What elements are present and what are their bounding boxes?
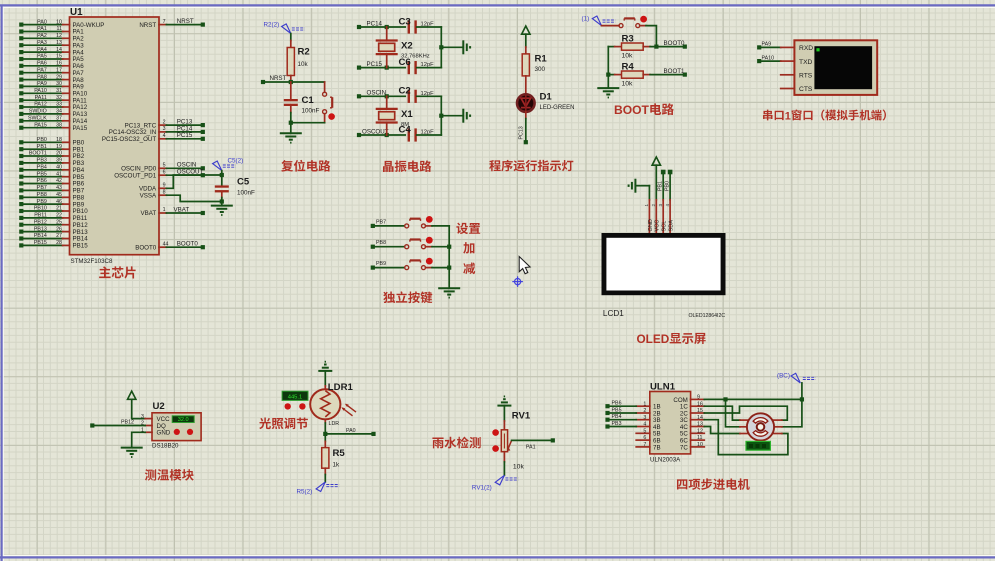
keys common rail to ground	[448, 226, 450, 288]
pin CTS stub	[781, 88, 795, 90]
U2 pin GND (1)	[145, 431, 152, 433]
power terminal OLED VCC	[652, 157, 660, 165]
svg-text:PB5: PB5	[612, 407, 622, 413]
resistor R4 10k	[608, 74, 614, 76]
svg-text:PA9: PA9	[762, 42, 772, 48]
pin PA8 (29) wire	[19, 78, 23, 82]
crystal X2	[386, 27, 388, 40]
ULN1 pin 2C (15)	[691, 412, 705, 414]
svg-text:PA10: PA10	[762, 55, 775, 61]
svg-text:10k: 10k	[298, 61, 309, 68]
svg-text:44: 44	[163, 241, 169, 247]
svg-text:PB14: PB14	[34, 233, 47, 239]
svg-text:C5(2): C5(2)	[228, 158, 244, 165]
svg-text:32: 32	[56, 95, 62, 101]
chip U1 STM32F103C8 body	[70, 17, 160, 255]
svg-text:29: 29	[56, 74, 62, 80]
svg-text:11: 11	[697, 435, 703, 441]
pin PB15 (28) wire	[19, 243, 23, 247]
wire COM to motor left common	[726, 399, 741, 426]
svg-text:PB12: PB12	[34, 219, 47, 225]
label 加	[463, 242, 474, 254]
svg-text:R5: R5	[333, 448, 346, 459]
svg-text:12pF: 12pF	[421, 91, 435, 97]
svg-text:39: 39	[56, 158, 62, 164]
capacitor C3 12pF	[408, 20, 410, 33]
terminal R5(2)	[316, 482, 325, 492]
svg-text:BOOT1: BOOT1	[29, 151, 47, 157]
pin PA15 (38) wire	[19, 126, 23, 130]
svg-text:PB11: PB11	[34, 213, 47, 219]
wire button to BOOT0 node	[646, 26, 656, 47]
svg-text:GND: GND	[157, 430, 171, 437]
svg-text:LDR: LDR	[329, 421, 340, 427]
pin PB10 (21) wire	[19, 209, 23, 213]
wire PA0 net	[325, 433, 373, 435]
svg-text:OLED: OLED	[637, 332, 670, 346]
svg-text:7: 7	[163, 19, 166, 25]
wire VDDA to C5 node	[166, 175, 221, 188]
svg-text:RTS: RTS	[799, 73, 813, 80]
svg-text:PB6: PB6	[37, 178, 47, 184]
label 程序运行指示灯	[489, 160, 500, 171]
svg-text:U2: U2	[153, 401, 165, 412]
pin PB13 (26) wire	[19, 230, 23, 234]
svg-text:PB5: PB5	[37, 171, 47, 177]
light adjust buttons	[285, 403, 291, 409]
svg-text:PA12: PA12	[34, 102, 47, 108]
svg-text:BOOT0: BOOT0	[135, 244, 157, 251]
U2 pin DQ (2)	[145, 425, 152, 427]
pin PB7 (43) wire	[19, 188, 23, 192]
svg-text:12pF: 12pF	[421, 22, 435, 28]
pin PA9 (30) wire	[19, 84, 23, 88]
svg-text:PA15: PA15	[73, 125, 88, 132]
capacitor C4 12pF	[408, 128, 410, 141]
U2 temperature readout display	[172, 416, 194, 423]
origin marker	[515, 279, 521, 285]
pin PA1 (11) wire	[19, 29, 23, 33]
svg-text:PB9: PB9	[37, 199, 47, 205]
svg-text:R4: R4	[622, 61, 635, 72]
wire SDA net PB0	[668, 170, 673, 175]
svg-text:3: 3	[141, 414, 144, 420]
svg-text:PA0: PA0	[346, 428, 356, 434]
svg-text:C2: C2	[399, 86, 411, 97]
rail to R4 and ground	[607, 47, 609, 89]
svg-text:PB13: PB13	[34, 226, 47, 232]
pin BOOT0 (44) net BOOT0	[159, 246, 166, 248]
OLED pin GND (1)	[648, 200, 650, 233]
svg-text:PB3: PB3	[612, 421, 622, 427]
U2 adjust buttons	[174, 429, 180, 435]
svg-text:PC15: PC15	[177, 132, 193, 139]
svg-text:25: 25	[56, 219, 62, 225]
svg-text:X2: X2	[401, 41, 413, 52]
svg-text:DS18B20: DS18B20	[152, 443, 179, 450]
svg-text:15: 15	[56, 54, 62, 60]
svg-text:PA1: PA1	[526, 444, 536, 450]
svg-text:X1: X1	[401, 109, 413, 120]
svg-text:10: 10	[56, 19, 62, 25]
svg-text:C4: C4	[399, 124, 412, 135]
key button PB8	[371, 245, 375, 249]
capacitor C1 100nF	[290, 82, 292, 99]
ULN1 pin 4C (13)	[691, 426, 705, 428]
svg-text:R5(2): R5(2)	[297, 488, 313, 495]
wire button bottom	[291, 122, 325, 124]
wire BC to COM net	[801, 383, 803, 400]
pin PC13_RTC (2) net PC13	[159, 124, 166, 126]
svg-text:38: 38	[56, 122, 62, 128]
svg-text:NRST: NRST	[139, 22, 156, 29]
label 设置	[456, 223, 468, 235]
svg-text:OSCOUT: OSCOUT	[362, 128, 389, 135]
pin PA3 (13) wire	[19, 43, 23, 47]
label 独立按键	[383, 291, 395, 303]
wire right rail	[440, 96, 442, 135]
svg-text:9: 9	[163, 183, 166, 189]
svg-text:PB15: PB15	[34, 240, 47, 246]
ULN1 pin 5C (12)	[691, 432, 705, 434]
wire GND pin	[648, 186, 650, 200]
wire ground to RV1	[503, 406, 505, 421]
svg-text:PA4: PA4	[37, 47, 47, 53]
svg-text:1: 1	[644, 204, 649, 207]
wire right rail	[440, 27, 442, 68]
ground of reset circuit	[280, 132, 302, 134]
svg-text:4: 4	[665, 204, 670, 207]
U2 pin VCC (3)	[145, 418, 152, 420]
svg-text:R1: R1	[535, 54, 548, 65]
wire 2C to motor	[704, 406, 787, 420]
svg-text:27: 27	[56, 233, 62, 239]
pin PB3 (39) wire	[19, 161, 23, 165]
ground of U2	[121, 447, 143, 449]
svg-text:PB9: PB9	[376, 261, 386, 267]
terminal C5(2)	[213, 161, 222, 171]
ground above LDR1	[318, 370, 332, 372]
svg-text:16: 16	[56, 61, 62, 67]
wire 1C to motor	[704, 406, 740, 420]
ULN1 pin 5B (5)	[636, 432, 650, 434]
terminal RV1(2)	[495, 475, 504, 485]
pin OSCOUT_PD1 (6) net OSCOUT	[159, 174, 166, 176]
crystal X1	[386, 96, 388, 108]
svg-text:PA5: PA5	[37, 54, 47, 60]
svg-text:40: 40	[56, 165, 62, 171]
ULN1 pin 7C (10)	[691, 446, 705, 448]
label 复位电路	[281, 160, 293, 172]
resistor R1 300	[525, 47, 527, 54]
OLED pin SCL (3)	[662, 200, 664, 233]
svg-text:PB12: PB12	[121, 420, 134, 426]
wire LDR1 to PA0 node	[324, 419, 326, 423]
svg-text:LCD1: LCD1	[603, 309, 624, 318]
pin PB0 (18) wire	[19, 140, 23, 144]
label 测温模块	[145, 469, 156, 481]
svg-text:SWCLK: SWCLK	[28, 116, 47, 122]
svg-text:PB7: PB7	[376, 219, 386, 225]
LED D1 LED-GREEN	[517, 94, 535, 112]
wire RV1 bottom	[503, 452, 505, 462]
pin PC15-OSC32_OUT (4) net PC15	[159, 138, 166, 140]
svg-text:7C: 7C	[680, 444, 688, 451]
svg-text:31: 31	[56, 88, 62, 94]
chip ULN1 ULN2003A body	[650, 392, 691, 454]
virtual terminal box	[794, 40, 877, 95]
svg-text:C5: C5	[237, 176, 250, 187]
node PC15 wire	[357, 66, 361, 70]
svg-text:PB7: PB7	[37, 185, 47, 191]
svg-text:5: 5	[643, 428, 646, 434]
wire BOOT0 net	[650, 46, 685, 48]
wire PB6 to 1B	[605, 404, 609, 408]
wire GND to ground	[132, 432, 146, 447]
label 雨水检测	[432, 438, 443, 449]
svg-text:PA0: PA0	[37, 19, 47, 25]
svg-text:9: 9	[697, 395, 700, 401]
pin PA10 wire to TXD	[757, 59, 761, 63]
svg-text:1k: 1k	[333, 461, 341, 468]
svg-text:37: 37	[56, 116, 62, 122]
mouse cursor	[519, 257, 530, 274]
wire terminal to C5	[221, 171, 223, 186]
pin PA10 (31) wire	[19, 91, 23, 95]
svg-text:PB4: PB4	[37, 165, 47, 171]
OLED LCD1 body	[602, 233, 726, 295]
resistor R2 10k	[290, 41, 292, 48]
ULN1 pin 6C (11)	[691, 439, 705, 441]
svg-text:PA3: PA3	[37, 40, 47, 46]
svg-text:13: 13	[697, 422, 703, 428]
svg-text:SDA: SDA	[669, 220, 675, 232]
resistor R5 1k	[324, 441, 326, 447]
svg-text:10k: 10k	[622, 53, 634, 60]
pin PB8 (45) wire	[19, 195, 23, 199]
wire VSSA to C5 bottom node	[166, 195, 221, 201]
svg-text:PA6: PA6	[37, 61, 47, 67]
svg-text:18: 18	[56, 137, 62, 143]
wire BOOT1 net	[650, 74, 685, 76]
chip U2 DS18B20 body	[152, 413, 201, 441]
svg-text:22: 22	[56, 213, 62, 219]
svg-text:U1: U1	[70, 7, 83, 18]
svg-text:PB3: PB3	[37, 158, 47, 164]
svg-text:BOOT1: BOOT1	[664, 68, 686, 75]
svg-text:PA8: PA8	[37, 74, 47, 80]
capacitor C6 12pF	[408, 61, 410, 74]
pin PB1 (19) wire	[19, 147, 23, 151]
wire COM net	[704, 398, 802, 400]
svg-text:7B: 7B	[653, 444, 661, 451]
terminal (1)	[592, 16, 601, 26]
pin PA2 (12) wire	[19, 36, 23, 40]
button of reset circuit	[324, 82, 326, 92]
svg-text:45: 45	[56, 192, 62, 198]
svg-text:4: 4	[643, 422, 646, 428]
svg-text:11: 11	[57, 26, 63, 32]
pin PA11 (32) wire	[19, 98, 23, 102]
wire COM to motor right common	[782, 399, 802, 426]
svg-text:VBAT: VBAT	[140, 210, 156, 217]
svg-text:R2(2): R2(2)	[264, 22, 280, 29]
power terminal U2	[128, 391, 136, 399]
svg-text:SCL: SCL	[662, 221, 668, 232]
svg-text:PA2: PA2	[37, 33, 47, 39]
svg-text:PB4: PB4	[612, 414, 622, 420]
svg-text:CTS: CTS	[799, 86, 813, 93]
pin VDDA (9)	[159, 187, 166, 189]
pin VBAT (1)	[159, 212, 166, 214]
key button PB7	[371, 224, 375, 228]
ULN1 pin 3B (3)	[636, 419, 650, 421]
ground of BOOT circuit	[597, 87, 619, 89]
node NRST wire	[261, 80, 265, 84]
svg-text:10k: 10k	[513, 463, 525, 470]
svg-text:PA9: PA9	[37, 81, 47, 87]
svg-text:2: 2	[163, 119, 166, 125]
wire 4C to motor	[704, 427, 740, 434]
svg-text:1: 1	[163, 207, 166, 213]
svg-text:R3: R3	[622, 33, 634, 44]
svg-text:30: 30	[56, 81, 62, 87]
pin BOOT1 (20) wire	[19, 154, 23, 158]
svg-text:42: 42	[56, 178, 62, 184]
svg-text:12pF: 12pF	[421, 130, 435, 136]
wire 3C to motor	[704, 420, 788, 455]
svg-text:C3: C3	[399, 16, 411, 27]
wire SCL net PB1	[661, 170, 666, 175]
svg-text:PC15: PC15	[367, 61, 383, 68]
svg-text:PB8: PB8	[37, 192, 47, 198]
label 主芯片	[99, 266, 111, 278]
label 四项步进电机	[677, 479, 687, 489]
resistor R3 10k	[608, 46, 614, 48]
svg-text:4: 4	[163, 133, 166, 139]
pin PB12 (25) wire	[19, 223, 23, 227]
label 串口1窗口（模拟手机端）	[763, 110, 772, 121]
pin SWDIO (34) wire	[19, 112, 23, 116]
svg-text:PC13: PC13	[519, 126, 525, 139]
svg-text:PB1: PB1	[658, 181, 664, 191]
svg-text:12: 12	[56, 33, 62, 39]
pin VSSA (8)	[159, 194, 166, 196]
svg-text:NRST: NRST	[177, 18, 194, 25]
svg-text:PB1: PB1	[37, 144, 47, 150]
svg-text:LED-GREEN: LED-GREEN	[540, 105, 575, 111]
ULN1 pin 4B (4)	[636, 426, 650, 428]
svg-text:300: 300	[535, 66, 546, 73]
svg-text:34: 34	[56, 109, 62, 115]
svg-text:3: 3	[658, 204, 663, 207]
boot button	[602, 25, 620, 27]
svg-text:10k: 10k	[622, 81, 634, 88]
RV1 adjust buttons	[492, 429, 499, 436]
svg-text:41: 41	[56, 171, 62, 177]
svg-text:1: 1	[785, 110, 791, 122]
svg-text:46: 46	[56, 199, 62, 205]
svg-text:C6: C6	[399, 57, 411, 68]
svg-text:43: 43	[56, 185, 62, 191]
svg-text:PB0: PB0	[665, 181, 671, 191]
svg-text:BOOT: BOOT	[614, 103, 650, 117]
power terminal above R1	[522, 26, 530, 34]
svg-text:15: 15	[697, 408, 703, 414]
ULN1 pin 7B (7)	[636, 446, 650, 448]
svg-text:12pF: 12pF	[421, 62, 435, 68]
svg-text:ULN2003A: ULN2003A	[650, 457, 681, 464]
svg-text:PB0: PB0	[37, 137, 47, 143]
pin PA7 (17) wire	[19, 71, 23, 75]
pin PA4 (14) wire	[19, 50, 23, 54]
svg-text:PA11: PA11	[35, 95, 47, 101]
svg-text:OLED12864I2C: OLED12864I2C	[689, 313, 726, 319]
svg-text:GND: GND	[648, 219, 654, 231]
ground below C5	[211, 205, 233, 207]
ULN1 pin COM (9)	[691, 398, 705, 400]
label 减	[463, 262, 475, 274]
svg-text:LDR1: LDR1	[328, 382, 354, 393]
svg-text:PA1: PA1	[37, 26, 47, 32]
pin PB6 (42) wire	[19, 181, 23, 185]
ground right of X2	[462, 40, 464, 54]
pin PB14 (27) wire	[19, 236, 23, 240]
svg-text:PA10: PA10	[34, 88, 47, 94]
svg-text:2: 2	[643, 408, 646, 414]
terminal R2(2)	[282, 24, 291, 34]
svg-text:VCC: VCC	[655, 220, 661, 232]
pin NRST (7) net NRST	[159, 24, 166, 26]
pin PB9 (46) wire	[19, 202, 23, 206]
svg-text:14: 14	[56, 47, 62, 53]
stepper readout display	[746, 441, 770, 450]
svg-text:7: 7	[643, 442, 646, 448]
node PC14 wire	[357, 25, 361, 29]
svg-text:PA15: PA15	[34, 122, 47, 128]
terminal (BC)	[791, 373, 800, 383]
svg-text:ULN1: ULN1	[650, 381, 676, 392]
pin PA9 wire to RXD	[757, 45, 761, 49]
svg-text:PB15: PB15	[73, 243, 89, 250]
svg-text:445.1: 445.1	[288, 394, 303, 400]
svg-text:20: 20	[56, 151, 62, 157]
LDR1 photoresistor	[310, 389, 340, 419]
key button PB9	[371, 266, 375, 270]
pin PA5 (15) wire	[19, 57, 23, 61]
svg-text:19: 19	[56, 144, 62, 150]
capacitor C5	[215, 185, 229, 187]
svg-text:100nF: 100nF	[302, 107, 320, 114]
light level display 445.1	[282, 391, 308, 400]
wire PB3 to 4B	[605, 424, 609, 428]
svg-text:14: 14	[697, 415, 703, 421]
svg-text:6: 6	[163, 169, 166, 175]
ground above RV1	[497, 405, 511, 407]
svg-text:16: 16	[697, 401, 703, 407]
svg-text:RV1(2): RV1(2)	[472, 484, 492, 491]
node OSCIN wire	[357, 94, 361, 98]
svg-text:NRST: NRST	[270, 75, 287, 82]
svg-text:21: 21	[56, 206, 62, 212]
label 光照调节	[259, 417, 271, 429]
stepper motor	[740, 419, 749, 421]
svg-text:(1): (1)	[582, 15, 590, 22]
wire PB5 to 2B	[605, 411, 609, 415]
potentiometer RV1 10k	[501, 430, 507, 452]
svg-text:VBAT: VBAT	[174, 206, 190, 213]
svg-text:OSCIN: OSCIN	[367, 90, 387, 97]
